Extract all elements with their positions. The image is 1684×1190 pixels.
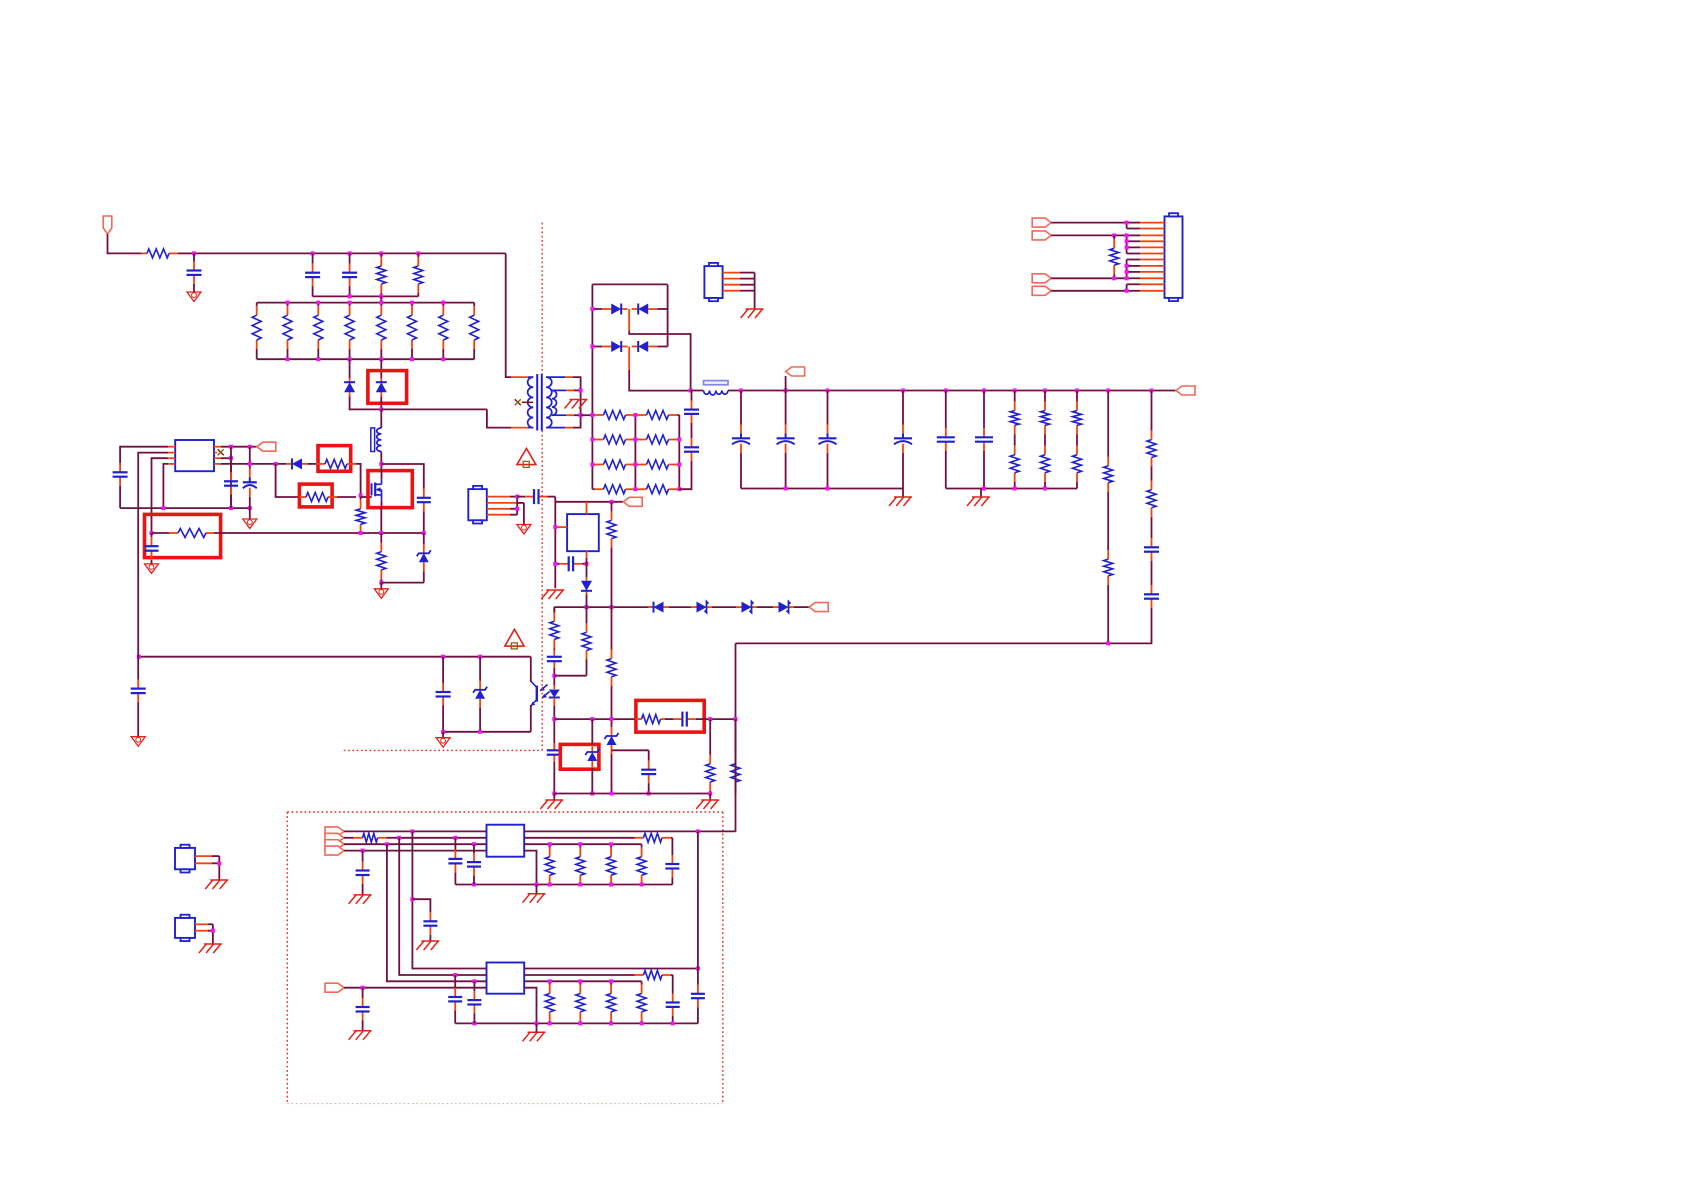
wire [387, 844, 487, 981]
transistor Q1 (MOSFET) [372, 471, 382, 508]
wire [553, 668, 555, 685]
resistor R4 (inrush bank) [252, 303, 261, 360]
connector CN2 (aux) [704, 263, 722, 301]
resistor R6 (inrush bank) [314, 303, 323, 360]
resistor R34 (comp) [636, 715, 665, 724]
wire (opto collector) [530, 657, 532, 682]
wire [119, 496, 121, 508]
node [1112, 233, 1128, 249]
capacitor C22 [224, 462, 238, 505]
no-connect X (pin7) [218, 449, 224, 455]
ground (chassis) G8 [540, 800, 563, 809]
node [229, 456, 233, 460]
capacitor C29 [665, 848, 679, 885]
node [610, 500, 614, 504]
inductor L2 [377, 428, 382, 452]
IC U5 (DC-DC converter) [487, 825, 525, 857]
capacitor C8 (bulk) [819, 391, 837, 489]
capacitor C35 [448, 975, 462, 1023]
resistor R25 (load) [1073, 439, 1082, 488]
node rail junctions [739, 389, 1154, 393]
ground (chassis) G4 [889, 497, 912, 506]
capacitor C32 [356, 988, 370, 1031]
capacitor C7 (bulk) [777, 391, 795, 489]
resistor R24 (load) [1073, 391, 1082, 440]
wire (c1 gnd pin) [524, 851, 536, 885]
resistor R35 [706, 719, 715, 793]
transformer T1 core [537, 374, 542, 431]
ground (chassis) G21 [523, 1032, 546, 1041]
wire (bank2 top bus) [257, 302, 475, 304]
node [137, 655, 482, 659]
wire [591, 768, 593, 794]
no-connect X (primary tap) [515, 399, 521, 405]
wire [1126, 235, 1128, 253]
resistor R12 (dummy load) [592, 411, 635, 420]
connector CN2 pins [723, 273, 755, 291]
node [1106, 641, 1110, 645]
ground (earth) G9 [436, 738, 450, 748]
inductor L1 [704, 391, 729, 396]
ground (chassis) G3 [741, 309, 764, 318]
wire [629, 370, 690, 391]
capacitor C26 [131, 657, 146, 725]
resistor R1 (input fusible) [142, 249, 194, 258]
net label flag (V+ sense) [786, 367, 805, 376]
node [379, 581, 383, 585]
module outline (dotted) [287, 811, 723, 813]
diode D1 [344, 378, 355, 397]
transformer T1 secondary tap winding [552, 390, 574, 415]
capacitor C4 (snubber) [684, 391, 699, 434]
wire (pin2 to FB) [138, 453, 168, 657]
ground (earth) G14 [131, 737, 145, 747]
ground (earth) G13 [374, 589, 388, 599]
capacitor C12 [1144, 527, 1159, 572]
wire [586, 595, 588, 608]
wire [704, 718, 735, 720]
wire [380, 397, 382, 410]
connector pin J-LINE (AC input stub) [103, 216, 112, 234]
ground (chassis) G17 [349, 895, 372, 904]
capacitor C15 [555, 556, 586, 571]
capacitor C27 [356, 851, 370, 895]
connector CN5 pins [195, 924, 213, 930]
wire (mid tap 2) [628, 347, 630, 371]
node [379, 462, 383, 466]
wire [506, 253, 511, 377]
wire (rect top) [592, 283, 667, 285]
capacitor C6 (bulk) [732, 391, 750, 489]
net label flag (GND) [1032, 274, 1051, 283]
node [590, 345, 594, 349]
module outline (dotted) [722, 812, 724, 1104]
diode D5 [592, 341, 627, 352]
node AC rail junctions [192, 251, 420, 255]
ground (earth) G12 [145, 564, 159, 574]
IC U2 bottom pin [586, 551, 588, 558]
wire [381, 582, 424, 584]
connector CN4 pins [195, 856, 219, 863]
node [1112, 264, 1128, 280]
resistor R28 [1147, 391, 1156, 474]
highlight box (RC comp) [636, 700, 704, 732]
resistor R41 (source) [377, 533, 386, 583]
wire [679, 466, 691, 489]
node [286, 301, 446, 305]
wire (bank2 bottom bus) [257, 358, 475, 360]
net label flag (EN) [325, 983, 344, 992]
capacitor C20 [641, 750, 656, 793]
wire [412, 831, 486, 968]
wire (c2 out row3) [524, 980, 641, 982]
wire (secondary top) [573, 377, 581, 428]
resistor R7 (inrush bank) [345, 303, 354, 360]
capacitor C23 [243, 462, 257, 505]
diode D11 [581, 577, 592, 595]
wire (source) [380, 508, 382, 533]
wire (to converters) [735, 643, 737, 831]
wire [487, 409, 511, 427]
highlight box (TL431) [560, 744, 599, 769]
resistor R38 (gate) [299, 493, 356, 502]
wire [380, 583, 382, 589]
resistor R17 (dummy load) [635, 460, 679, 469]
wire (cs bus) [214, 532, 424, 534]
wire [399, 838, 486, 975]
ground (earth) G6 [517, 525, 531, 535]
module outline (dotted) [287, 1103, 723, 1105]
ground (chassis) G5 [967, 497, 990, 506]
zener diode U4 (TL431) [585, 745, 599, 768]
node [708, 717, 737, 721]
connector CN1 pins [1127, 223, 1165, 291]
wire [574, 414, 581, 416]
node [150, 531, 154, 535]
resistor R32 (LED series) [550, 607, 559, 650]
capacitor C36 [467, 981, 481, 1023]
node [217, 861, 221, 865]
resistor R47 [607, 844, 616, 884]
ground (earth) G11 [243, 519, 257, 529]
resistor R16 (dummy load) [592, 460, 635, 469]
capacitor C18 [436, 657, 451, 732]
wire [612, 749, 649, 751]
resistor R50 [545, 981, 554, 1023]
resistor R42 [1110, 235, 1119, 278]
wire [536, 1023, 538, 1032]
capacitor C28 [423, 906, 437, 941]
connector CN5 [175, 915, 195, 941]
wire [902, 489, 904, 498]
connector CN3 [468, 486, 487, 524]
highlight box (R gate 2) [299, 484, 332, 507]
diode D4 [632, 304, 668, 315]
wire (pin5) [221, 463, 286, 465]
diode D6 [632, 341, 668, 352]
capacitor C1 [187, 253, 202, 292]
wire [553, 794, 555, 801]
wire [1126, 260, 1128, 279]
wire (pin3 CS) [152, 458, 169, 533]
highlight box (R sense) [145, 514, 221, 557]
net label flag (OUT2) [1032, 231, 1051, 240]
capacitor C3 (X-cap) [342, 253, 357, 296]
resistor R10 (inrush bank) [439, 303, 448, 360]
wire (pin6) [221, 457, 231, 459]
wire [754, 273, 756, 309]
wire (c1 row1) [344, 830, 487, 832]
wire [586, 558, 588, 577]
node [579, 388, 583, 417]
node [1125, 221, 1129, 225]
wire [230, 447, 232, 508]
IC U2 left pin [555, 526, 567, 528]
resistor R45 [545, 844, 554, 884]
resistor R29 [1147, 473, 1156, 527]
wire [785, 376, 787, 391]
wire (fb node) [554, 718, 636, 720]
net label flag (PWR1) [325, 833, 344, 842]
resistor R40 (sense) [152, 529, 215, 538]
ground (chassis) G16 [199, 944, 222, 953]
wire [412, 899, 430, 906]
highlight box (R gate) [318, 446, 351, 472]
node [696, 829, 700, 833]
capacitor C34 [691, 969, 705, 1024]
node [441, 730, 482, 734]
ground (chassis) G18 [416, 941, 439, 950]
wire [1126, 223, 1128, 229]
IC U1 right pins [214, 447, 221, 464]
resistor R33 (LED shunt) [582, 607, 591, 676]
wire (opto emitter) [530, 705, 532, 732]
ground (chassis) G15 [205, 880, 228, 889]
wire (cap bus 1) [741, 488, 903, 490]
resistor R27 [1104, 523, 1113, 643]
wire [516, 497, 518, 515]
wire (c2 row4) [344, 987, 487, 989]
wire [349, 359, 351, 378]
net label flag (PWR0) [325, 827, 344, 836]
wire [735, 719, 737, 793]
optocoupler U3 LED [549, 685, 560, 706]
node [286, 357, 446, 361]
node [590, 413, 681, 491]
wire (rail) [728, 390, 1176, 392]
wire [356, 464, 361, 496]
wire [523, 503, 525, 525]
node [211, 929, 215, 933]
zener diode Z3 [417, 533, 431, 583]
node [472, 883, 644, 887]
wire (gnd bus) [120, 507, 250, 509]
resistor R18 (dummy load) [592, 485, 635, 494]
capacitor C25 [145, 533, 159, 564]
resistor R53 [637, 981, 646, 1023]
wire (row1 feed) [581, 414, 593, 416]
wire [591, 719, 593, 745]
wire (gate) [361, 496, 372, 498]
isolation mark (safety triangle) [517, 449, 536, 468]
wire (rail) [691, 390, 704, 392]
capacitor C16 [547, 650, 562, 668]
wire [671, 838, 673, 848]
inductor L2 core [371, 428, 375, 452]
node [982, 487, 1047, 491]
resistor R8 (inrush bank) [377, 303, 386, 360]
resistor R14 (dummy load) [592, 435, 635, 444]
resistor R30 [607, 502, 616, 607]
wire (fb top link) [555, 501, 623, 503]
ground (chassis) G19 [523, 894, 546, 903]
ground (chassis) G2 [565, 400, 588, 409]
node [410, 897, 414, 901]
net label flag (FB) [623, 497, 642, 506]
resistor R2 (bleeder) [377, 253, 386, 296]
wire [194, 252, 506, 254]
wire (grid mid bus) [634, 415, 636, 489]
ground (chassis) G10 [696, 800, 719, 809]
capacitor C14 (Y-cap) [517, 489, 555, 504]
wire [709, 794, 711, 801]
wire [554, 497, 556, 589]
capacitor C9 [894, 391, 912, 489]
net label flag (5VSB) [809, 603, 828, 612]
node [348, 294, 384, 298]
transformer T1 secondary winding [546, 377, 573, 428]
resistor R48 [637, 844, 646, 884]
connector CN4 [175, 845, 195, 873]
node [552, 792, 556, 796]
resistor R51 [576, 981, 585, 1023]
ground (earth) G1 [187, 292, 201, 302]
resistor R13 (dummy load) [635, 411, 679, 420]
node [784, 487, 830, 491]
node [379, 407, 383, 411]
net label flag (PWR2) [325, 840, 344, 849]
node [229, 445, 252, 449]
wire (c1 out row3) [524, 843, 641, 845]
node [1125, 289, 1129, 293]
zener diode Z2 [473, 657, 487, 732]
capacitor C11 [975, 391, 993, 489]
wire (c1 bus) [455, 884, 672, 886]
wire (bank1 bottom bus) [313, 295, 419, 297]
highlight box (MOSFET) [368, 471, 412, 508]
wire [380, 409, 382, 428]
diode D12 [286, 458, 308, 469]
wire [1051, 222, 1126, 224]
wire (rect left bus) [591, 284, 593, 489]
wire (c2 bus) [455, 1022, 698, 1024]
resistor R9 (inrush bank) [408, 303, 417, 360]
diode D7 [648, 602, 669, 613]
wire [554, 675, 586, 677]
resistor R52 [607, 981, 616, 1023]
capacitor C33 [666, 986, 680, 1023]
node [548, 979, 613, 983]
wire (c1 row2) [399, 837, 486, 839]
node [548, 842, 613, 846]
capacitor C5 (snubber) [684, 433, 699, 466]
wire (link) [380, 296, 382, 302]
wire [629, 331, 690, 391]
wire (grid right bus) [678, 415, 680, 489]
wire (c2 gnd pin) [524, 988, 536, 1024]
wire (cap bus 2) [946, 488, 1077, 490]
node [610, 792, 713, 796]
wire (c1 row4) [344, 850, 487, 852]
wire [380, 359, 382, 378]
resistor R21 (load) [1010, 439, 1019, 488]
wire [980, 489, 982, 498]
net label flag (OUT1) [1032, 218, 1051, 227]
resistor R19 (dummy load) [635, 485, 679, 494]
wire [249, 505, 251, 519]
node [472, 1021, 674, 1025]
wire [218, 856, 220, 880]
wire [553, 762, 555, 794]
wire [757, 606, 773, 608]
net label flag (VCC) [257, 442, 276, 451]
wire [1051, 234, 1126, 236]
node [696, 967, 700, 971]
isolation barrier (dotted) [541, 223, 543, 374]
wire [249, 447, 251, 462]
resistor R15 (dummy load) [635, 435, 679, 444]
wire [794, 606, 809, 608]
diode D10 [773, 602, 794, 613]
wire (rect right bus) [667, 284, 669, 346]
node [552, 717, 556, 721]
wire [380, 452, 382, 471]
wire (drain snub) [381, 464, 424, 476]
resistor R23 (load) [1041, 439, 1050, 488]
diode D2 (boxed) [376, 378, 387, 397]
wire [212, 924, 214, 944]
wire (fb bottom) [443, 731, 531, 733]
IC U2 (shunt regulator) [567, 514, 599, 551]
ground (chassis) G7 [541, 590, 564, 599]
node [585, 605, 614, 609]
resistor R39 (gate-src) [356, 497, 365, 533]
capacitor C24 (snubber) [417, 476, 431, 524]
wire [137, 725, 139, 737]
isolation barrier (dotted) [541, 431, 543, 751]
node [515, 495, 519, 511]
resistor R49 [524, 971, 673, 980]
diode D9 [736, 602, 757, 613]
wire [697, 831, 699, 968]
capacitor C21 [113, 453, 128, 496]
wire (c1 row3) [344, 843, 487, 845]
resistor R43 [344, 833, 399, 842]
wire [712, 606, 736, 608]
connector CN3 pins [487, 497, 524, 515]
node [248, 462, 278, 466]
wire [553, 706, 555, 749]
wire (c2 out row1) [524, 968, 698, 970]
capacitor C19 (comp) [665, 712, 704, 727]
capacitor C2 (X-cap) [305, 253, 320, 296]
wire [669, 606, 691, 608]
capacitor C31 [467, 844, 481, 884]
wire (pin4) [163, 464, 168, 508]
isolation barrier (dotted) [344, 749, 543, 751]
wire [1051, 277, 1126, 279]
optocoupler U3 phototransistor [531, 681, 537, 706]
